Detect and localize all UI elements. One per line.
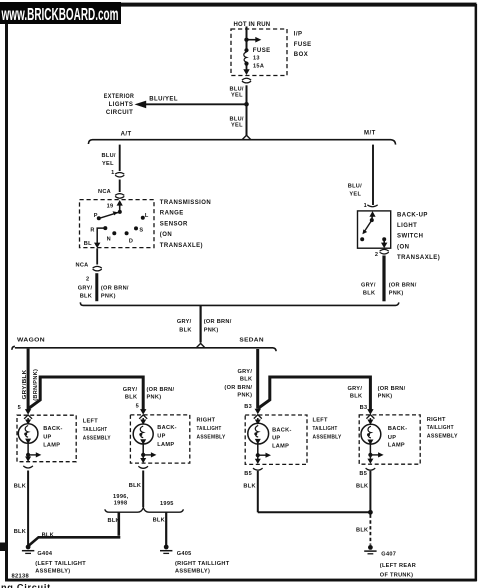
- contact R: [103, 226, 107, 230]
- svg-text:TAILLIGHT: TAILLIGHT: [197, 426, 222, 432]
- contact D: [125, 231, 129, 235]
- right taillight assembly box (dashed): [130, 415, 189, 463]
- I/P fuse box (dashed): [231, 29, 287, 76]
- svg-text:1: 1: [111, 170, 114, 176]
- left edge tick mark: [0, 543, 5, 552]
- svg-text:GRY/: GRY/: [361, 282, 376, 288]
- ground G407: [364, 545, 376, 554]
- svg-text:BLK: BLK: [80, 294, 92, 300]
- svg-text:ASSEMBLY: ASSEMBLY: [427, 434, 458, 440]
- pin 19 entry arrow: [117, 200, 123, 212]
- svg-text:(OR BRN/: (OR BRN/: [378, 386, 406, 392]
- svg-text:1995: 1995: [160, 501, 174, 507]
- svg-text:TRANSAXLE): TRANSAXLE): [160, 243, 203, 249]
- left taillight assembly box (dashed): [17, 415, 76, 462]
- label (OR BRN/ PNK) (M/T): [389, 282, 417, 296]
- switch arm: [362, 220, 371, 234]
- wire fuse to box exit arrow: [243, 66, 249, 76]
- wire wagon left drop (thick): [27, 349, 30, 410]
- svg-text:TAILLIGHT: TAILLIGHT: [313, 426, 338, 432]
- svg-text:TAILLIGHT: TAILLIGHT: [427, 425, 454, 431]
- lamp exit arrow: [27, 455, 29, 458]
- contact P: [97, 216, 101, 220]
- frame bottom border: [5, 579, 477, 582]
- label BACK-UP LIGHT SWITCH (ON TRANSAXLE): [397, 213, 440, 261]
- svg-text:TAILLIGHT: TAILLIGHT: [83, 427, 108, 433]
- label BACK-UP LAMP (sedan right): [388, 426, 408, 449]
- dashed wire to G407: [369, 515, 371, 545]
- caret junction at bus 2: [196, 343, 205, 348]
- svg-text:OF TRUNK): OF TRUNK): [380, 572, 413, 578]
- label BLU/YEL (M/T): [348, 183, 362, 197]
- svg-text:YEL: YEL: [102, 161, 114, 167]
- wire R contact to box exit: [97, 228, 105, 243]
- label G407 (LEFT REAR OF TRUNK): [380, 551, 416, 578]
- svg-text:YEL: YEL: [349, 192, 361, 198]
- svg-text:UP: UP: [157, 434, 165, 440]
- svg-text:(OR BRN/: (OR BRN/: [147, 387, 175, 393]
- svg-text:GRY/: GRY/: [348, 386, 363, 392]
- wire M/T drop: [372, 145, 374, 205]
- svg-text:PNK): PNK): [204, 328, 219, 334]
- connector NCA (below sensor): [93, 266, 102, 271]
- fuse 13 15A: [244, 48, 249, 66]
- label GRY/BLK (A/T): [78, 285, 93, 299]
- frame left border: [5, 23, 8, 581]
- svg-text:LEFT: LEFT: [313, 417, 328, 423]
- switch output contact: [382, 237, 386, 241]
- svg-text:BACK-: BACK-: [157, 425, 177, 431]
- svg-text:BL: BL: [84, 241, 92, 247]
- wire GRY/BLK (A/T) thick: [95, 273, 98, 301]
- label G404 (LEFT TAILLIGHT ASSEMBLY): [35, 551, 86, 575]
- svg-text:EXTERIOR: EXTERIOR: [104, 94, 135, 100]
- svg-text:LEFT: LEFT: [83, 419, 98, 425]
- svg-text:N: N: [107, 237, 111, 243]
- caret at box edge: [24, 415, 32, 419]
- svg-text:NCA: NCA: [76, 262, 89, 268]
- caret junction at splitter: [242, 135, 251, 140]
- label I/P FUSE BOX: [294, 32, 312, 58]
- banner www.brickboard.com: [0, 2, 121, 24]
- label GRY/BLK (wagon right): [123, 387, 138, 400]
- switch lower-left contact: [360, 237, 364, 241]
- svg-text:UP: UP: [43, 434, 51, 440]
- label (OR BRN/ PNK) (bus): [204, 319, 232, 334]
- wire 1996 branch to G404: [29, 512, 120, 545]
- svg-text:(ON: (ON: [397, 244, 409, 250]
- svg-text:FUSE: FUSE: [294, 42, 312, 48]
- svg-text:B3: B3: [360, 405, 368, 411]
- svg-text:YEL: YEL: [231, 123, 243, 129]
- svg-text:PNK): PNK): [101, 294, 116, 300]
- switch arm to P: [101, 211, 120, 218]
- svg-text:TRANSMISSION: TRANSMISSION: [160, 200, 211, 206]
- connector below box: [138, 466, 148, 468]
- label GRY/BLK (sedan right): [348, 386, 363, 400]
- svg-text:LIGHTS: LIGHTS: [109, 102, 134, 108]
- svg-text:5: 5: [18, 405, 21, 411]
- connector below fuse box: [242, 78, 251, 83]
- svg-text:1998: 1998: [114, 501, 128, 507]
- svg-text:D: D: [129, 239, 133, 245]
- label BLU/YEL (above exterior junction): [230, 87, 244, 99]
- svg-text:BLK: BLK: [350, 394, 362, 400]
- svg-text:BLU/: BLU/: [102, 153, 116, 159]
- ground G405: [160, 545, 172, 554]
- svg-text:(LEFT REAR: (LEFT REAR: [380, 563, 416, 569]
- svg-text:YEL: YEL: [231, 93, 243, 99]
- svg-text:ASSEMBLY): ASSEMBLY): [175, 568, 210, 574]
- svg-text:BLK: BLK: [129, 483, 141, 489]
- svg-text:2: 2: [86, 276, 89, 282]
- svg-text:BLK: BLK: [356, 484, 368, 490]
- contact S: [134, 226, 138, 230]
- svg-text:SWITCH: SWITCH: [397, 234, 423, 240]
- wire wagon right to year brace: [142, 471, 144, 508]
- svg-text:BLK: BLK: [42, 532, 54, 538]
- svg-text:G407: G407: [381, 551, 396, 557]
- connector at switch pin 2: [380, 249, 389, 254]
- node lamp junction + feed arrow: [256, 453, 260, 457]
- ground G404: [22, 545, 34, 554]
- svg-text:B5: B5: [359, 471, 367, 477]
- label BLU/YEL (below junction): [230, 117, 244, 129]
- svg-text:LAMP: LAMP: [43, 442, 60, 448]
- label RIGHT TAILLIGHT ASSEMBLY (sedan): [427, 417, 458, 439]
- lamp entry arrow: [25, 409, 31, 415]
- contact L: [141, 216, 145, 220]
- wire sedan left drop (thick): [256, 349, 259, 409]
- label LEFT TAILLIGHT ASSEMBLY (sedan): [313, 417, 342, 440]
- frame right border: [475, 4, 478, 581]
- contact N: [112, 231, 116, 235]
- transmission range sensor box (dashed): [80, 200, 155, 248]
- svg-text:A/T: A/T: [121, 132, 132, 138]
- svg-text:WAGON: WAGON: [17, 338, 45, 344]
- svg-text:(BRN/PNK): (BRN/PNK): [33, 369, 39, 401]
- svg-text:R: R: [90, 227, 94, 233]
- wire sedan left down: [257, 471, 259, 512]
- svg-text:2: 2: [375, 252, 378, 258]
- wire wagon left to ground: [27, 471, 29, 546]
- switch exit arrow: [381, 240, 387, 248]
- label BACK-UP LAMP (wagon right): [157, 425, 177, 448]
- svg-text:BACK-: BACK-: [272, 427, 292, 433]
- svg-text:1996,: 1996,: [113, 494, 129, 500]
- svg-text:www.BRICKBOARD.com: www.BRICKBOARD.com: [1, 4, 119, 24]
- splitter wire A/T M/T: [88, 140, 395, 145]
- svg-text:S: S: [139, 227, 143, 233]
- back-up lamp bulb: [142, 418, 144, 422]
- svg-text:BLK: BLK: [363, 291, 375, 297]
- svg-text:LAMP: LAMP: [157, 442, 174, 448]
- svg-text:FUSE: FUSE: [253, 48, 271, 54]
- wire sedan ground bus: [258, 511, 371, 513]
- svg-text:GRY/: GRY/: [78, 285, 93, 291]
- svg-text:RIGHT: RIGHT: [427, 417, 446, 423]
- wire 1995 branch to G405: [165, 512, 167, 545]
- svg-text:GRY/: GRY/: [123, 387, 138, 393]
- label BLU/YEL (A/T): [102, 153, 116, 167]
- svg-text:ASSEMBLY: ASSEMBLY: [313, 435, 342, 441]
- svg-text:BLK: BLK: [125, 394, 137, 400]
- back-up light switch box: [358, 211, 391, 248]
- svg-text:BACK-UP: BACK-UP: [397, 213, 428, 219]
- switch upper contact: [370, 218, 374, 222]
- svg-text:G405: G405: [177, 551, 192, 557]
- label RIGHT TAILLIGHT ASSEMBLY (wagon): [197, 418, 226, 441]
- svg-text:P: P: [94, 213, 98, 219]
- wire below sensor: [96, 248, 98, 264]
- svg-text:(OR BRN/: (OR BRN/: [204, 319, 232, 325]
- node lamp junction + feed arrow: [141, 453, 145, 457]
- svg-text:UP: UP: [388, 435, 396, 441]
- svg-text:BLK: BLK: [243, 484, 255, 490]
- svg-text:B5: B5: [244, 471, 252, 477]
- node lamp junction + feed arrow: [368, 453, 372, 457]
- svg-text:SEDAN: SEDAN: [239, 338, 264, 344]
- label FUSE 13 15A: [253, 48, 271, 69]
- connector below box: [366, 468, 376, 470]
- svg-text:G404: G404: [37, 551, 52, 557]
- svg-text:B3: B3: [244, 404, 252, 410]
- svg-text:(RIGHT TAILLIGHT: (RIGHT TAILLIGHT: [175, 561, 230, 567]
- right taillight assembly box (dashed): [359, 415, 420, 464]
- svg-text:(OR BRN/: (OR BRN/: [101, 285, 129, 291]
- label (OR BRN/ PNK) (A/T): [101, 285, 129, 299]
- left taillight assembly box (dashed): [245, 415, 307, 464]
- svg-text:(LEFT TAILLIGHT: (LEFT TAILLIGHT: [35, 561, 86, 567]
- label G405 (RIGHT TAILLIGHT ASSEMBLY): [175, 551, 230, 575]
- svg-text:BLU/: BLU/: [348, 183, 362, 189]
- back-up lamp bulb: [369, 418, 371, 422]
- connector C1 (A/T): [115, 172, 124, 177]
- wire A/T drop: [119, 145, 121, 171]
- svg-text:CIRCUIT: CIRCUIT: [106, 110, 133, 116]
- svg-text:BLU/YEL: BLU/YEL: [149, 96, 178, 102]
- wire to exterior lights circuit: [135, 101, 247, 109]
- svg-text:LAMP: LAMP: [272, 443, 289, 449]
- svg-text:GRY/BLK: GRY/BLK: [22, 370, 28, 400]
- svg-text:82138: 82138: [12, 574, 30, 580]
- svg-text:ASSEMBLY): ASSEMBLY): [35, 568, 70, 574]
- label 1996, 1998: [113, 494, 129, 507]
- node sedan ground junction: [368, 510, 373, 515]
- svg-text:LIGHT: LIGHT: [397, 223, 417, 229]
- svg-text:I/P: I/P: [294, 32, 303, 38]
- svg-text:ASSEMBLY: ASSEMBLY: [83, 436, 111, 442]
- svg-text:BLK: BLK: [356, 528, 368, 534]
- svg-text:BLK: BLK: [14, 529, 26, 535]
- label TRANSMISSION RANGE SENSOR (ON TRANSAXLE): [160, 200, 211, 249]
- label (OR BRN/ PNK) (sedan right): [378, 386, 406, 400]
- svg-text:UP: UP: [272, 435, 280, 441]
- svg-text:(ON: (ON: [160, 232, 172, 238]
- svg-text:BACK-: BACK-: [388, 426, 408, 432]
- switch entry arrow: [369, 211, 375, 220]
- svg-text:RIGHT: RIGHT: [197, 418, 216, 424]
- label GRY/BLK (bus): [177, 319, 192, 334]
- label EXTERIOR LIGHTS CIRCUIT: [104, 94, 135, 116]
- svg-text:ng Circuit: ng Circuit: [1, 583, 51, 588]
- svg-text:GRY/: GRY/: [177, 319, 192, 325]
- svg-text:BLK: BLK: [179, 328, 191, 334]
- svg-text:HOT IN RUN: HOT IN RUN: [234, 22, 271, 28]
- svg-text:PNK): PNK): [237, 392, 252, 398]
- wire center drop: [200, 306, 202, 343]
- wire down from connector to A/T-M/T split: [246, 85, 248, 136]
- connector at switch pin 1: [367, 205, 377, 207]
- svg-text:NCA: NCA: [98, 189, 111, 195]
- svg-text:LAMP: LAMP: [388, 443, 405, 449]
- label LEFT TAILLIGHT ASSEMBLY (wagon): [83, 419, 111, 442]
- svg-text:BLK: BLK: [14, 483, 26, 489]
- svg-text:PNK): PNK): [378, 394, 393, 400]
- svg-text:1: 1: [364, 203, 367, 209]
- svg-text:15A: 15A: [253, 63, 264, 69]
- bus wire 2 (wagon/sedan): [12, 346, 276, 351]
- svg-text:GRY/: GRY/: [238, 369, 253, 375]
- wire: [119, 180, 121, 193]
- wire sedan right down: [369, 471, 371, 512]
- feed arrow to other circuits: [248, 37, 261, 43]
- svg-text:ASSEMBLY: ASSEMBLY: [197, 435, 226, 441]
- label GRY/BLK (M/T): [361, 282, 376, 296]
- svg-text:TRANSAXLE): TRANSAXLE): [397, 255, 440, 261]
- back-up lamp bulb: [257, 418, 259, 422]
- svg-text:19: 19: [107, 204, 114, 210]
- node exterior lights junction: [244, 102, 249, 107]
- connector below box: [253, 468, 263, 470]
- bus wire 1: [80, 302, 398, 305]
- svg-text:13: 13: [253, 56, 260, 62]
- connector NCA (A/T): [115, 194, 124, 199]
- node feed junction: [244, 38, 248, 42]
- frame top border: [0, 3, 477, 7]
- sedan branch wire to right lamp (thick): [258, 376, 370, 410]
- svg-text:BACK-: BACK-: [43, 426, 63, 432]
- label GRY/BLK (OR BRN/ PNK) (sedan left): [224, 369, 252, 398]
- exit arrow at box bottom: [94, 243, 100, 249]
- year split brace: [105, 507, 184, 512]
- label BACK-UP LAMP (wagon left): [43, 426, 63, 449]
- switch common node: [118, 210, 122, 214]
- svg-text:5: 5: [136, 404, 139, 410]
- wire GRY/BLK (M/T) thick: [382, 256, 385, 302]
- svg-text:RANGE: RANGE: [160, 211, 184, 217]
- label (OR BRN/ PNK) (wagon right): [147, 387, 175, 400]
- svg-text:BOX: BOX: [294, 52, 308, 58]
- wagon branch wire to right lamp (thick): [29, 376, 144, 410]
- svg-text:M/T: M/T: [364, 131, 376, 137]
- back-up lamp bulb: [27, 418, 29, 422]
- svg-text:BLK: BLK: [108, 518, 120, 524]
- svg-text:SENSOR: SENSOR: [160, 221, 188, 227]
- svg-text:L: L: [145, 213, 149, 219]
- label BACK-UP LAMP (sedan left): [272, 427, 292, 449]
- svg-text:PNK): PNK): [389, 291, 404, 297]
- svg-text:(OR BRN/: (OR BRN/: [389, 282, 417, 288]
- svg-text:(OR BRN/: (OR BRN/: [224, 385, 252, 391]
- svg-text:PNK): PNK): [147, 394, 162, 400]
- svg-text:BLK: BLK: [153, 518, 165, 524]
- node lamp junction + feed arrow: [26, 453, 30, 457]
- wire from HOT IN RUN through fuse: [246, 27, 248, 50]
- svg-text:BLK: BLK: [240, 377, 252, 383]
- connector below box: [23, 466, 33, 468]
